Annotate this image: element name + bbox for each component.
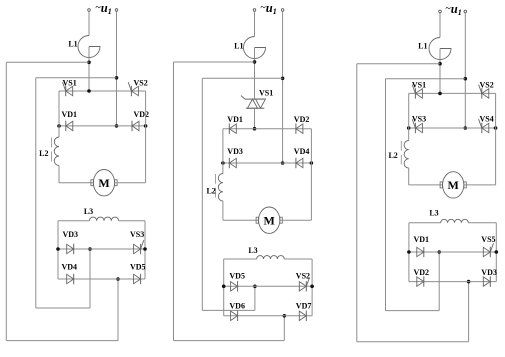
- svg-text:VD4: VD4: [294, 147, 310, 156]
- svg-text:M: M: [448, 178, 459, 192]
- svg-text:L1: L1: [418, 42, 427, 51]
- svg-text:VS2: VS2: [296, 271, 310, 280]
- svg-text:VD1: VD1: [227, 115, 243, 124]
- svg-text:L3: L3: [248, 246, 257, 255]
- svg-text:VS4: VS4: [480, 115, 494, 124]
- svg-text:VS5: VS5: [481, 235, 495, 244]
- svg-text:VD1: VD1: [62, 110, 78, 119]
- svg-text:~u1: ~u1: [260, 1, 276, 16]
- svg-text:VS2: VS2: [134, 79, 148, 88]
- svg-text:L1: L1: [234, 42, 243, 51]
- svg-text:VD1: VD1: [414, 235, 430, 244]
- svg-text:VD7: VD7: [296, 302, 312, 311]
- svg-text:VD2: VD2: [134, 110, 150, 119]
- svg-text:L2: L2: [39, 149, 48, 158]
- svg-text:VD3: VD3: [63, 230, 79, 239]
- svg-text:L2: L2: [206, 186, 215, 195]
- svg-text:VD6: VD6: [229, 302, 245, 311]
- svg-text:VD3: VD3: [227, 147, 243, 156]
- svg-text:M: M: [264, 213, 275, 227]
- svg-text:VS2: VS2: [480, 80, 494, 89]
- svg-text:VD5: VD5: [229, 271, 245, 280]
- svg-text:L3: L3: [429, 208, 438, 217]
- svg-text:L3: L3: [84, 207, 93, 216]
- svg-text:VS3: VS3: [412, 115, 426, 124]
- svg-text:VD2: VD2: [414, 268, 430, 277]
- svg-text:VS1: VS1: [412, 80, 426, 89]
- svg-text:L1: L1: [68, 40, 77, 49]
- svg-text:VD3: VD3: [481, 268, 497, 277]
- svg-text:VS3: VS3: [130, 230, 144, 239]
- svg-text:VD5: VD5: [130, 263, 146, 272]
- svg-text:VS1: VS1: [259, 89, 273, 98]
- svg-text:M: M: [98, 176, 109, 190]
- svg-text:~u1: ~u1: [95, 1, 111, 16]
- svg-text:~u1: ~u1: [445, 2, 461, 17]
- svg-text:VD2: VD2: [294, 115, 310, 124]
- svg-text:L2: L2: [388, 151, 397, 160]
- svg-text:VD4: VD4: [62, 263, 78, 272]
- svg-text:VS1: VS1: [63, 79, 77, 88]
